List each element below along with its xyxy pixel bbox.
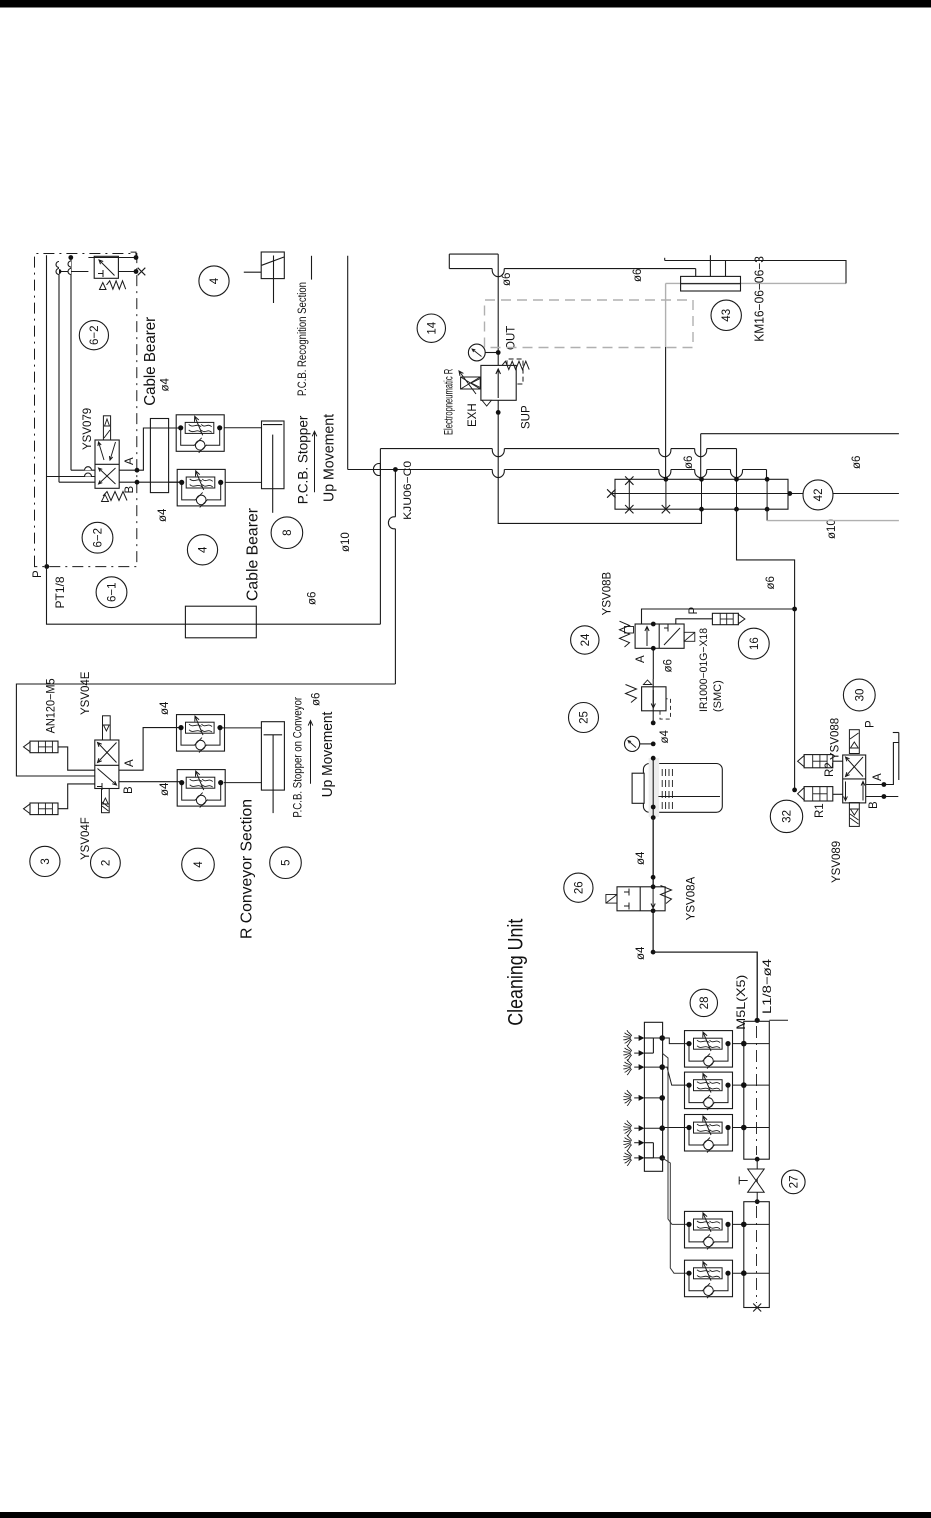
pressure gauge top — [485, 352, 498, 354]
circle 4 recognition — [199, 266, 229, 296]
regulator solenoid — [461, 377, 481, 389]
svg-text:30: 30 — [854, 689, 866, 702]
port line to FC-C — [662, 1127, 688, 1129]
svg-text:24: 24 — [580, 633, 592, 646]
svg-text:ø6: ø6 — [765, 576, 777, 589]
svg-text:27: 27 — [788, 1176, 800, 1189]
svg-text:ø4: ø4 — [635, 946, 647, 960]
valve YSV04E YSV04F body — [95, 740, 119, 789]
port A connector bracket — [898, 733, 900, 781]
svg-text:A: A — [635, 655, 647, 663]
wire top-right rail — [665, 261, 846, 284]
svg-text:ø10: ø10 — [826, 519, 838, 539]
manifold 42 center line — [611, 493, 899, 495]
shutoff valve 27 — [755, 1157, 760, 1162]
long wire port2 to FC-D — [662, 1053, 688, 1224]
svg-text:ø6: ø6 — [851, 456, 863, 469]
circle 5 — [270, 847, 302, 879]
manifold bottom dots — [699, 507, 704, 512]
svg-text:32: 32 — [782, 810, 794, 823]
header port lines — [644, 1037, 662, 1039]
svg-text:Cleaning Unit: Cleaning Unit — [505, 919, 528, 1026]
main supply line vertical — [497, 254, 499, 365]
svg-text:ø6: ø6 — [311, 693, 323, 706]
circle 14 — [417, 314, 445, 342]
svg-text:ø6: ø6 — [683, 456, 695, 469]
svg-text:ø6: ø6 — [663, 659, 675, 672]
junction dot P supply — [44, 564, 49, 569]
silencer R2 — [804, 755, 833, 768]
svg-text:6−2: 6−2 — [93, 528, 105, 548]
svg-text:ø4: ø4 — [160, 377, 172, 391]
svg-text:R2: R2 — [824, 762, 836, 777]
flow control cleaning C — [685, 1115, 733, 1152]
wire rail V59 — [58, 272, 60, 483]
svg-text:Up Movement: Up Movement — [321, 413, 338, 502]
circle 42 — [803, 480, 833, 510]
svg-text:KJU06−C0: KJU06−C0 — [402, 461, 414, 520]
air filter unit — [643, 764, 722, 813]
svg-text:A: A — [124, 759, 136, 767]
grey wire manifold right — [766, 509, 768, 520]
svg-text:IR1000−01G−X18: IR1000−01G−X18 — [698, 628, 710, 712]
svg-text:ø4: ø4 — [659, 729, 671, 743]
wire manifold to YSV088 group — [737, 509, 795, 790]
valve YSV08B — [635, 624, 684, 648]
section leader line — [311, 256, 313, 280]
junction dot IR out — [651, 721, 656, 726]
svg-text:4: 4 — [193, 861, 205, 868]
svg-text:L1/8−ø4: L1/8−ø4 — [760, 959, 774, 1014]
IR1000 relief triangle — [643, 680, 651, 685]
svg-text:Cable Bearer: Cable Bearer — [142, 317, 159, 406]
svg-text:YSV04F: YSV04F — [80, 817, 92, 860]
svg-text:ø4: ø4 — [159, 782, 171, 796]
valve YSV079 5/2 — [95, 440, 119, 488]
wire FC2 to cylinder — [225, 481, 262, 483]
rail tail — [769, 1019, 788, 1021]
svg-text:(SMC): (SMC) — [712, 680, 724, 712]
svg-text:5: 5 — [281, 859, 293, 865]
svg-text:ø4: ø4 — [635, 851, 647, 865]
svg-text:6−2: 6−2 — [89, 325, 101, 345]
svg-text:P.C.B. Stopper: P.C.B. Stopper — [295, 415, 311, 504]
grey dashed box — [485, 300, 694, 348]
bracket end tick — [131, 252, 136, 257]
YSV079 port stubs to rails — [71, 469, 95, 471]
wire top feed corner — [449, 253, 498, 255]
wire P supply rail — [47, 255, 381, 624]
wire to YSV08A — [652, 818, 654, 887]
regulator exhaust triangle — [482, 400, 491, 406]
flow control FC-U conveyor — [177, 715, 225, 752]
circle 6-2 lower — [82, 522, 113, 553]
cable bearer passage rect — [150, 419, 168, 493]
silencer AN120 no1 — [30, 741, 58, 753]
circle 16 — [738, 628, 769, 659]
YSV08A solenoid — [606, 895, 617, 904]
arrow up movement (top) — [312, 431, 317, 492]
wire port A of pilot valve — [88, 257, 136, 259]
port B wire — [119, 481, 180, 483]
svg-text:EXH: EXH — [467, 403, 479, 427]
svg-text:A: A — [124, 457, 136, 465]
wire feed to M5L manifold — [653, 952, 757, 1020]
wire FC1 to cylinder — [224, 427, 261, 429]
svg-text:4: 4 — [198, 546, 210, 553]
YSV08B spring — [620, 621, 630, 647]
wire H-top to KM16 manifold — [449, 268, 492, 270]
filter liquid dashes — [661, 769, 663, 809]
svg-text:P.C.B. Stopper on Conveyor: P.C.B. Stopper on Conveyor — [293, 697, 305, 818]
wire YSV08A to cleaning unit — [652, 911, 654, 952]
svg-text:Cable Bearer: Cable Bearer — [245, 508, 262, 601]
svg-text:28: 28 — [699, 997, 711, 1010]
wire B through rect region — [169, 481, 181, 483]
electropneumatic regulator body — [481, 365, 516, 400]
svg-text:42: 42 — [813, 489, 825, 502]
svg-text:YSV079: YSV079 — [82, 408, 94, 450]
svg-text:YSV088: YSV088 — [830, 718, 842, 760]
flow control cleaning D — [685, 1211, 733, 1248]
line jump arcs on rails — [56, 262, 59, 268]
KM16 manifold body — [681, 276, 741, 291]
dot R1 feed — [792, 788, 797, 793]
circle 2 — [91, 848, 121, 878]
wire KM16 drop to manifold — [665, 347, 667, 479]
nozzle pair jogs — [652, 1038, 654, 1053]
svg-text:14: 14 — [426, 321, 438, 334]
grey wire from KM16 — [666, 282, 846, 284]
silencer AN120 no2 — [30, 803, 58, 815]
cable bearer rect 2 — [185, 606, 256, 638]
svg-text:Electropneumatic R: Electropneumatic R — [444, 369, 456, 435]
svg-text:6−1: 6−1 — [107, 582, 119, 602]
exhaust plug x — [138, 268, 146, 276]
YSV088 port B wire — [866, 796, 899, 798]
svg-text:YSV089: YSV089 — [831, 841, 843, 883]
wire main A line — [652, 679, 654, 723]
flow control cleaning E — [685, 1260, 733, 1297]
pilot valve spring and solenoid — [107, 281, 126, 289]
svg-text:P: P — [688, 607, 700, 615]
circle 6-2 upper — [79, 321, 108, 350]
svg-text:3: 3 — [40, 858, 52, 864]
wire silencer1 to valve — [58, 747, 95, 770]
wire top line to right edge — [701, 433, 899, 435]
KM16 port stubs — [709, 255, 711, 276]
svg-text:A: A — [872, 773, 884, 781]
wire silencer2 to valve — [58, 784, 95, 809]
YSV04E pilot — [103, 716, 111, 740]
top border bar — [0, 0, 931, 8]
svg-text:ø10: ø10 — [340, 532, 352, 552]
filter port dots — [651, 756, 656, 761]
svg-text:YSV04E: YSV04E — [80, 671, 92, 715]
svg-text:R1: R1 — [814, 803, 826, 818]
YSV08B solenoid — [684, 632, 695, 641]
long wire port5 to FC-E — [662, 1158, 688, 1273]
circle 26 — [564, 873, 593, 902]
port jog to FC-B — [662, 1067, 688, 1085]
valve YSV088 YSV089 body — [843, 755, 866, 803]
flow control cleaning A — [685, 1031, 733, 1068]
svg-text:43: 43 — [721, 309, 733, 322]
valve 3-port pilot (top) — [94, 256, 118, 278]
wire B YSV04F — [119, 781, 181, 783]
wire FCU to cylinder — [222, 727, 261, 729]
svg-text:ø4: ø4 — [159, 701, 171, 715]
circle 24 — [571, 626, 599, 654]
svg-text:ø6: ø6 — [501, 273, 513, 286]
stopper cylinder small — [261, 252, 284, 279]
wire A YSV04E — [119, 728, 181, 771]
YSV088 port A wire — [866, 743, 899, 785]
silencer 16 — [712, 613, 738, 624]
svg-text:8: 8 — [282, 529, 294, 535]
bottom border bar — [0, 1512, 931, 1518]
manifold plugs — [607, 489, 615, 497]
flow control FC1 (PCB stopper A) — [176, 415, 224, 452]
junction dot below regulator — [496, 410, 501, 415]
rail end plug — [753, 1304, 761, 1312]
IR1000 dashed feedback — [660, 699, 671, 719]
valve YSV08A — [617, 887, 665, 911]
svg-text:B: B — [124, 486, 136, 494]
wire rail V71 — [70, 258, 72, 471]
YSV088 pilot tab — [849, 730, 859, 754]
svg-text:M5L(X5): M5L(X5) — [734, 975, 748, 1030]
YSV079 pilot solenoid — [103, 416, 110, 440]
svg-text:YSV08B: YSV08B — [602, 571, 614, 615]
circle 6-1 — [96, 577, 127, 608]
circle 25 — [569, 703, 599, 733]
svg-text:ø6: ø6 — [307, 592, 319, 605]
wire FCL to cylinder — [224, 782, 262, 784]
flow control cleaning B — [685, 1072, 733, 1109]
port jog to FC-A — [662, 1038, 688, 1044]
cylinder conveyor stopper — [261, 722, 284, 790]
spray nozzles — [639, 1035, 645, 1041]
svg-text:SUP: SUP — [521, 405, 533, 429]
svg-text:2: 2 — [100, 860, 112, 866]
manifold 42 body — [615, 479, 788, 509]
svg-text:P.C.B. Recognition Section: P.C.B. Recognition Section — [297, 282, 309, 396]
wire H2 distribution — [380, 448, 492, 450]
wire supply drop to R conveyor — [394, 470, 396, 517]
svg-text:OUT: OUT — [506, 326, 518, 350]
regulator pilot dashed box — [507, 359, 523, 384]
svg-text:25: 25 — [579, 711, 591, 724]
svg-text:ø4: ø4 — [157, 508, 169, 522]
YSV08A spring — [661, 886, 672, 904]
circle 43 — [711, 300, 741, 330]
rail centerline upper — [756, 1026, 758, 1155]
manifold rail upper — [744, 1021, 770, 1159]
dashed enclosure box 6-2 group — [35, 254, 137, 567]
svg-text:4: 4 — [209, 277, 221, 284]
wire H1 distribution — [348, 469, 493, 471]
flow control FC-L conveyor — [177, 770, 225, 807]
pressure gauge 2 — [640, 743, 653, 745]
circle 4 conveyor — [182, 848, 215, 881]
filter internal line — [658, 796, 720, 798]
regulator spring — [502, 361, 529, 369]
IR1000 spring — [626, 685, 637, 703]
YSV079 spring — [103, 492, 127, 501]
svg-text:ø6: ø6 — [632, 269, 644, 282]
nozzle header block — [644, 1022, 662, 1171]
svg-text:KM16−06−06−3: KM16−06−06−3 — [753, 256, 767, 342]
svg-text:AN120−M5: AN120−M5 — [46, 678, 58, 733]
svg-text:16: 16 — [749, 637, 761, 650]
svg-text:26: 26 — [573, 881, 585, 894]
rail centerline lower — [756, 1206, 758, 1303]
silencer R1 — [804, 787, 833, 801]
svg-text:Up Movement: Up Movement — [319, 711, 336, 797]
circle 32 — [770, 800, 802, 832]
circle 28 — [690, 989, 717, 1016]
svg-text:B: B — [123, 786, 135, 794]
wire riser to H1 — [347, 256, 349, 470]
circle 8 — [271, 517, 303, 549]
YSV08B pressure silencer wire — [676, 619, 713, 624]
svg-text:P: P — [32, 570, 44, 578]
circle 4 top group — [187, 535, 217, 565]
YSV089 pilot tab — [849, 803, 859, 827]
stopper cylinder lead wire — [244, 271, 261, 273]
regulator IR1000 — [642, 687, 666, 711]
manifold rail lower — [744, 1202, 770, 1308]
flow control FC2 (PCB stopper B) — [177, 469, 225, 506]
circle 27 — [782, 1170, 806, 1194]
svg-text:B: B — [868, 801, 880, 809]
circle 30 — [843, 679, 875, 711]
svg-text:P: P — [865, 720, 877, 728]
wire A through rect — [150, 427, 180, 429]
circle 3 — [30, 846, 60, 876]
manifold 42 internal ports — [628, 479, 630, 509]
port A wire — [119, 428, 150, 470]
junction dot — [68, 255, 73, 260]
wire port B of pilot valve — [119, 271, 136, 273]
svg-text:YSV08A: YSV08A — [686, 876, 698, 920]
YSV04F pilot — [102, 789, 110, 813]
wire supply to YSV08B — [642, 609, 795, 624]
cylinder PCB stopper — [262, 421, 285, 489]
svg-text:PT1/8: PT1/8 — [53, 576, 67, 608]
FC outputs to rail — [733, 1043, 770, 1045]
YSV08B port A wire — [652, 648, 654, 679]
arrow up movement conveyor — [308, 721, 313, 784]
manifold top dots — [664, 477, 669, 482]
svg-text:R Conveyor Section: R Conveyor Section — [239, 799, 256, 939]
